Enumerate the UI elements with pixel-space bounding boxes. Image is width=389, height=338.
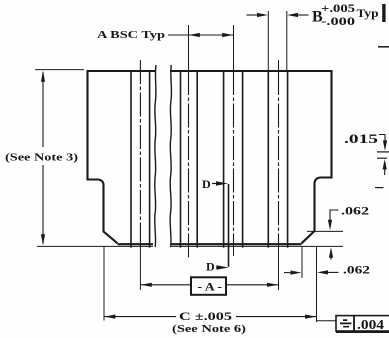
B dimension extension line (left, lead 4 left edge) — [267, 11, 269, 70]
leader to flatness control frame — [317, 320, 336, 322]
lead 3 left edge — [223, 72, 225, 248]
lead 4 centerline extension to -A- dimension — [278, 246, 280, 290]
C dimension line (right segment) — [236, 316, 317, 318]
lead 2 right edge — [196, 72, 198, 248]
lower .062 right-pointing arrow — [284, 272, 291, 274]
A BSC leader line — [168, 34, 188, 36]
-A- datum dimension line (left segment with outward arrow) — [140, 284, 190, 286]
seating plane line (right part) — [172, 245, 344, 247]
package body bottom edge (right of break) — [172, 243, 302, 245]
C dimension line (left segment) — [104, 316, 176, 318]
stray fragment dash (right edge, y=46) — [378, 46, 389, 48]
left dimension (See Note 3): top extension line — [35, 69, 84, 71]
svg-text:+.005: +.005 — [321, 3, 355, 15]
flatness symbol — [340, 320, 352, 327]
chamfer-start extension line (right, y=231) — [307, 230, 343, 232]
svg-text:Typ: Typ — [357, 8, 379, 20]
lid reference line (upper) — [377, 151, 389, 153]
lower .062 left-pointing arrow — [323, 271, 339, 273]
-A- datum box — [191, 277, 226, 295]
left dimension line upper segment — [42, 72, 44, 147]
feature control frame (flatness symbol cell) — [336, 316, 354, 331]
section D arrow (bottom, points right) — [216, 267, 219, 269]
B dimension arrow left (points right) — [247, 14, 263, 16]
feature control frame (.004 cell) — [354, 316, 389, 331]
svg-text:C ±.005: C ±.005 — [179, 309, 232, 323]
break line (left wavy) — [155, 65, 156, 247]
break line (right wavy) — [170, 65, 171, 247]
.015 down arrow — [384, 141, 386, 144]
lead 1 centerline extension to -A- dimension — [139, 246, 141, 290]
-A- datum dimension line (right segment with outward arrow) — [226, 284, 279, 286]
svg-text:.015: .015 — [344, 131, 379, 146]
.015 up arrow — [384, 168, 386, 175]
lead 1 left edge — [130, 72, 132, 248]
B dimension arrow right (points left) — [293, 14, 309, 16]
upper .062 up arrow (below seating plane) — [330, 254, 332, 260]
package body bottom edge (left of break) — [118, 243, 154, 245]
section D arrow (top, points right) — [212, 183, 216, 185]
svg-text:D: D — [202, 177, 211, 191]
lead 3 centerline (chain) with extension above for A BSC — [233, 25, 235, 71]
svg-text:-.000: -.000 — [321, 16, 355, 28]
stray fragment bar (top right corner) — [382, 4, 385, 22]
lower .062 extension line (chamfer bottom corner) — [301, 247, 303, 279]
svg-text:(See Note 3): (See Note 3) — [5, 152, 78, 164]
svg-text:A BSC Typ: A BSC Typ — [97, 29, 165, 41]
lead 3 right edge — [242, 72, 244, 248]
stray fragment dash (right edge, y=187) — [375, 187, 384, 189]
lid reference line (lower) — [377, 157, 387, 159]
lead 1 right edge — [149, 72, 151, 248]
lead 2 left edge — [180, 72, 182, 248]
section D-D cut line — [228, 184, 230, 267]
svg-text:- A -: - A - — [198, 279, 223, 293]
.015 leader from text — [379, 135, 385, 142]
C dimension left extension line — [103, 247, 105, 321]
upper .062 leader — [330, 210, 339, 222]
lead 4 left edge — [267, 72, 269, 248]
svg-text:.062: .062 — [343, 262, 370, 276]
A BSC dimension line with outward arrows — [189, 34, 234, 36]
svg-text:D: D — [206, 259, 215, 273]
upper .062 down arrow — [328, 220, 332, 231]
B dimension extension line (right, lead 4 right edge) — [286, 11, 288, 70]
feature control frame bottom border (thick) — [336, 331, 389, 333]
left dimension line lower segment — [42, 165, 44, 244]
svg-text:(See Note 6): (See Note 6) — [172, 323, 246, 335]
left dimension up arrow — [41, 71, 45, 82]
svg-text:.062: .062 — [341, 203, 369, 217]
lead 1 centerline (chain), extends above top and down to -A- dimension — [139, 60, 141, 246]
lead 2 centerline (chain) with extension above for A BSC — [188, 25, 190, 71]
package body outline (side view, upper wide portion) — [88, 71, 157, 243]
seating plane line (left part) — [37, 245, 153, 247]
lead 4 centerline (chain), stub above top — [278, 60, 280, 71]
package body outline (right side) — [170, 71, 332, 243]
lead 4 right edge — [287, 72, 289, 248]
C dimension right extension line — [316, 247, 318, 323]
left dimension down arrow — [41, 234, 45, 245]
svg-text:.004: .004 — [357, 317, 384, 332]
